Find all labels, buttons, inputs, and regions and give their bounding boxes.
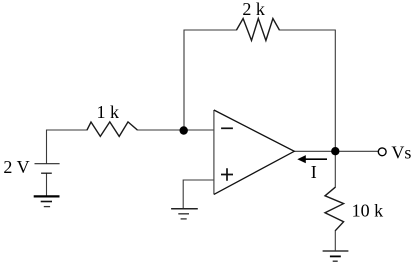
svg-text:2 k: 2 k [242, 0, 265, 19]
svg-text:I: I [311, 162, 317, 182]
svg-text:2 V: 2 V [3, 157, 29, 177]
svg-text:10 k: 10 k [352, 200, 384, 220]
svg-text:1 k: 1 k [97, 102, 120, 122]
svg-text:Vs: Vs [391, 142, 411, 162]
